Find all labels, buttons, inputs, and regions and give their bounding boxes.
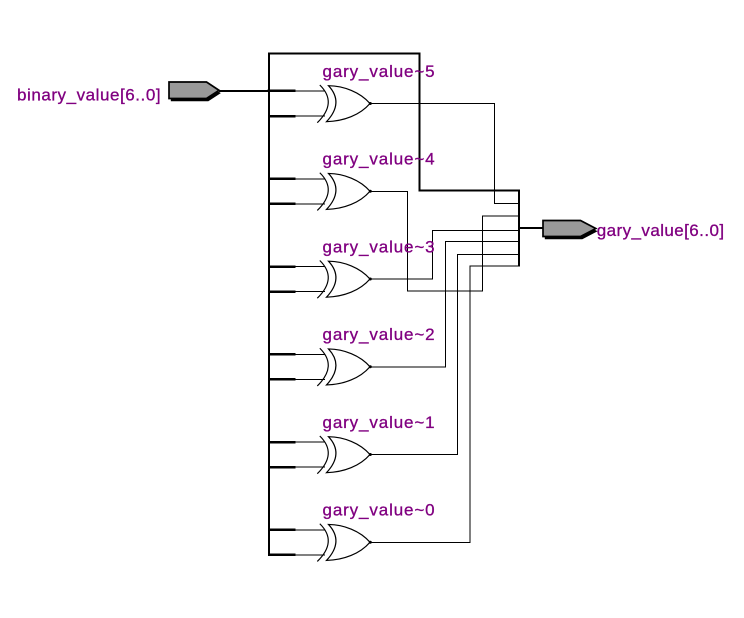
svg-text:gary_value~2: gary_value~2 (323, 325, 436, 344)
wire tap XOR5 input B (268, 115, 296, 118)
XOR gate gary_value~4 (317, 173, 372, 211)
XOR gate gary_value~3 (317, 261, 372, 299)
wire tap XOR0 input A (268, 529, 296, 532)
svg-text:gary_value~1: gary_value~1 (323, 413, 436, 432)
output pin gary_value[6..0] (543, 221, 598, 240)
thin input leads XOR3 (296, 267, 325, 292)
input bus vertical wire with top route to output bus merge (269, 54, 520, 556)
wire tap XOR3 input A (268, 265, 296, 268)
wire tap XOR4 input B (268, 203, 296, 206)
thin input leads XOR4 (296, 179, 325, 204)
XOR gate gary_value~2 (317, 348, 372, 386)
wire tap XOR2 input A (268, 353, 296, 356)
wire XOR4 output to merge slot3 (370, 191, 519, 291)
thin input leads XOR0 (296, 530, 325, 555)
wire tap XOR1 input B (268, 466, 296, 469)
svg-text:gary_value~3: gary_value~3 (323, 237, 436, 256)
wire XOR1 output to merge slot6 (370, 255, 519, 455)
svg-text:gary_value~5: gary_value~5 (323, 62, 436, 81)
XOR gate gary_value~1 (317, 436, 372, 474)
wire XOR0 output to merge slot7 (370, 266, 519, 542)
input pin binary_value[6..0] (169, 82, 221, 101)
wire tap XOR1 input A (268, 441, 296, 444)
svg-text:binary_value[6..0]: binary_value[6..0] (17, 85, 161, 104)
svg-text:gary_value~4: gary_value~4 (323, 150, 436, 169)
wire XOR5 output to merge slot2 (370, 104, 519, 204)
svg-text:gary_value~0: gary_value~0 (323, 501, 436, 520)
thin input leads XOR5 (296, 91, 325, 116)
wire tap XOR0 input B (268, 554, 296, 557)
wire tap XOR4 input A (268, 178, 296, 181)
wire XOR2 output to merge slot5 (370, 242, 519, 367)
wire XOR3 output to merge slot4 (370, 231, 519, 280)
XOR gate gary_value~5 (317, 85, 372, 123)
output bus stub wire to output pin (518, 227, 543, 229)
XOR gate gary_value~0 (317, 524, 372, 562)
wire tap XOR3 input B (268, 290, 296, 293)
thin input leads XOR2 (296, 354, 325, 379)
svg-text:gary_value[6..0]: gary_value[6..0] (597, 221, 725, 240)
thin input leads XOR1 (296, 442, 325, 467)
wire tap XOR2 input B (268, 378, 296, 381)
wire input pin to bus (219, 90, 268, 92)
output bus merge bar (518, 190, 520, 267)
